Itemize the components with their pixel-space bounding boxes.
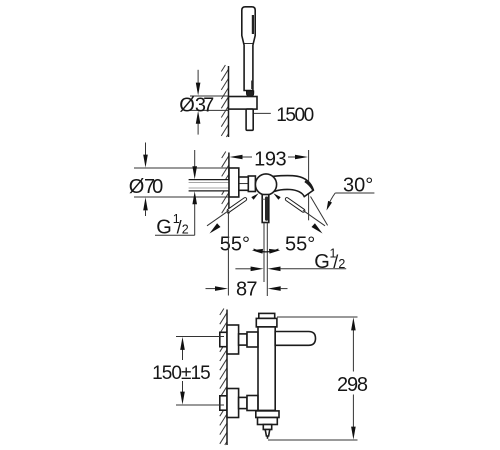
svg-text:193: 193 bbox=[254, 149, 287, 171]
svg-text:1500: 1500 bbox=[276, 105, 314, 126]
svg-text:55°: 55° bbox=[285, 234, 315, 256]
svg-text:2: 2 bbox=[338, 257, 345, 271]
svg-text:2: 2 bbox=[182, 222, 189, 236]
svg-text:G: G bbox=[314, 251, 330, 273]
svg-text:55°: 55° bbox=[220, 233, 250, 255]
svg-text:150±15: 150±15 bbox=[152, 363, 211, 384]
svg-text:87: 87 bbox=[236, 279, 257, 301]
svg-text:G: G bbox=[156, 217, 172, 239]
svg-text:Ø 37: Ø 37 bbox=[179, 95, 214, 117]
svg-text:298: 298 bbox=[337, 374, 368, 396]
svg-text:Ø 70: Ø 70 bbox=[129, 176, 164, 198]
